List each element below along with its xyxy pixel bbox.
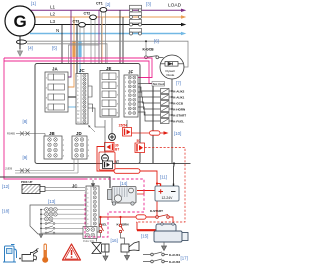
svg-text:JA: JA <box>52 67 58 72</box>
relay coil K-AUX1 <box>161 95 173 100</box>
svg-text:[16]: [16] <box>111 238 118 243</box>
svg-text:K-HORN: K-HORN <box>117 222 129 226</box>
neutral ellipse node <box>17 40 27 44</box>
svg-text:K-HORN: K-HORN <box>173 108 185 112</box>
contact K-AUX2 <box>143 259 168 263</box>
wire L3 (black phase) <box>30 24 181 26</box>
relay coil K-HORN <box>161 107 173 112</box>
red bus K-FUEL/K-HORN <box>101 216 156 218</box>
svg-text:K-AUX1: K-AUX1 <box>173 96 184 100</box>
lamp bus <box>40 210 42 235</box>
svg-text:L2: L2 <box>50 11 56 16</box>
BT wire to battery minus <box>113 163 191 165</box>
JB pins <box>48 138 65 158</box>
svg-text:4: 4 <box>125 91 126 93</box>
wire RS485 <box>7 132 45 137</box>
arrow N load end <box>181 32 186 35</box>
svg-text:K-AUX1: K-AUX1 <box>169 253 180 257</box>
connector JB <box>44 131 62 159</box>
fuse oval on 15/54 line <box>150 131 161 135</box>
arrow L1 load end <box>181 9 186 12</box>
diode return lead down <box>171 79 173 164</box>
red option box around BT <box>99 152 115 170</box>
relay coil K-AUX2 <box>161 89 173 94</box>
svg-text:[3]: [3] <box>146 1 151 6</box>
icon warning triangle <box>63 244 81 260</box>
pickup sensor <box>21 180 85 194</box>
svg-text:[9]: [9] <box>23 155 28 160</box>
horn ground <box>125 252 130 260</box>
arrow L2 load end <box>181 15 186 18</box>
wire blue sense to JA pin4 <box>68 34 80 108</box>
svg-text:[6]: [6] <box>154 38 159 43</box>
gray neutral wire 1 <box>27 41 146 56</box>
svg-text:JC: JC <box>79 68 85 73</box>
svg-text:K-START: K-START <box>150 209 163 213</box>
contact K-AUX1 <box>143 252 168 256</box>
CT1 current transformer <box>100 7 107 12</box>
svg-text:K-AUX2: K-AUX2 <box>173 90 184 94</box>
relay coil K-FUEL <box>161 119 173 124</box>
svg-text:Diode: Diode <box>167 73 175 77</box>
svg-text:K-FUEL: K-FUEL <box>173 120 184 124</box>
generator G <box>5 6 35 36</box>
ground arrow <box>18 49 23 56</box>
svg-text:L3: L3 <box>50 19 56 24</box>
wire L2 (orange phase) <box>30 16 181 18</box>
wire drop purple after CT1 to controller <box>98 10 100 63</box>
connector JF <box>124 69 138 117</box>
blue ref labels <box>2 1 188 260</box>
wire red 30BT to main red <box>97 147 118 172</box>
arrow L3 load end <box>181 23 186 26</box>
svg-text:L1: L1 <box>50 5 56 10</box>
svg-text:[10]: [10] <box>174 131 181 136</box>
wire L1 (purple phase to LOAD) <box>30 9 181 11</box>
svg-text:[2]: [2] <box>106 2 111 7</box>
svg-text:15/54: 15/54 <box>119 123 128 127</box>
terminal BT (black) <box>103 160 120 169</box>
svg-text:JD: JD <box>76 131 82 136</box>
contact K-GCB [6] <box>145 56 164 59</box>
magenta wire m2 (to Not Used) <box>4 61 152 84</box>
JD to JC arrow <box>89 126 96 133</box>
sleeve orange <box>72 41 75 57</box>
svg-text:CT3: CT3 <box>73 19 80 23</box>
red dashed wire from 50 <box>136 148 185 223</box>
svg-text:[5]: [5] <box>52 45 57 50</box>
breaker pole L3 <box>130 20 142 27</box>
flywheel diode circle <box>160 55 184 79</box>
svg-text:BT: BT <box>115 148 119 152</box>
black harness wire <box>0 177 110 188</box>
terminal 30 BT <box>105 143 120 152</box>
svg-text:K-GCB: K-GCB <box>173 102 184 106</box>
starter ground <box>162 242 167 251</box>
svg-text:12-24V: 12-24V <box>162 196 174 200</box>
CT3 secondary pair <box>80 27 84 64</box>
strip top arrow <box>91 180 94 187</box>
switch rows <box>45 221 55 234</box>
CT3 current transformer <box>79 22 86 27</box>
wire drop black2 near breaker to JF <box>122 17 124 64</box>
svg-text:[4]: [4] <box>28 45 33 50</box>
svg-text:G: G <box>14 12 27 31</box>
wire CAN J1939 pair <box>5 160 78 174</box>
breaker pole N <box>130 29 142 36</box>
wire 15/54 to fuse [10] <box>132 132 150 134</box>
svg-text:LOAD: LOAD <box>168 3 182 9</box>
svg-text:RS485: RS485 <box>7 132 15 136</box>
wire N (light blue neutral) <box>30 33 181 35</box>
icon oil can <box>19 249 38 262</box>
svg-text:CT1: CT1 <box>96 2 103 6</box>
svg-text:8: 8 <box>125 109 126 111</box>
wire black sense to JA pin3 <box>68 25 77 98</box>
starter motor <box>154 223 188 242</box>
sense-wire housing box <box>69 45 100 64</box>
CT2 secondary pair <box>91 20 95 64</box>
svg-text:JC: JC <box>72 184 77 189</box>
dashed option boundary <box>85 179 144 237</box>
terminal 15/54 <box>119 120 132 136</box>
valve ground <box>103 252 108 261</box>
JC strip pins <box>77 74 86 124</box>
CT2 current transformer <box>90 15 97 20</box>
svg-text:Not Used: Not Used <box>153 82 165 86</box>
wire to starter solenoid <box>169 217 173 224</box>
svg-text:FUEL SOL: FUEL SOL <box>83 240 95 243</box>
plus terminal circle <box>109 134 116 141</box>
icon fuel pump <box>3 245 17 263</box>
alternator B+ wire <box>137 190 157 192</box>
svg-text:[14]: [14] <box>120 181 127 186</box>
breaker pole L1 <box>130 5 142 12</box>
svg-text:6: 6 <box>125 100 126 102</box>
wire drop black near breaker to JF <box>119 10 121 63</box>
JF to relay stub wires <box>138 84 161 122</box>
breaker pole L2 <box>130 12 142 19</box>
svg-text:K-GCB: K-GCB <box>143 47 155 51</box>
wire steps right of JC <box>88 86 105 127</box>
relay coil K-GCB <box>161 101 173 106</box>
sleeve blue <box>78 41 81 57</box>
battery 12-24V <box>155 164 179 202</box>
svg-text:PICK UP: PICK UP <box>21 180 32 184</box>
battery plus lead <box>157 183 161 185</box>
svg-text:1: 1 <box>125 78 126 80</box>
horn <box>121 242 139 253</box>
connector JE <box>100 66 119 117</box>
connector JC (top strip) <box>76 68 88 124</box>
svg-text:JF: JF <box>128 69 133 74</box>
svg-text:[15]: [15] <box>141 234 148 239</box>
strip bottom block <box>83 227 97 239</box>
JF pins <box>125 76 136 115</box>
JD pins <box>75 138 90 158</box>
svg-text:[7]: [7] <box>176 80 181 85</box>
terminal 50 <box>135 117 145 153</box>
svg-text:N: N <box>56 28 59 33</box>
relay return bus left <box>152 86 154 164</box>
svg-text:[11]: [11] <box>160 175 167 180</box>
wire drop L3 black to controller <box>61 25 63 64</box>
svg-text:[1]: [1] <box>31 1 36 6</box>
relay coil K-START <box>161 113 173 118</box>
connector JD <box>72 131 87 159</box>
svg-text:[8]: [8] <box>23 119 28 124</box>
svg-text:K-START: K-START <box>173 114 186 118</box>
svg-text:J1939: J1939 <box>5 167 13 171</box>
annunciator lamp box <box>30 205 84 234</box>
fuse oval on bus <box>136 215 146 219</box>
svg-text:JB: JB <box>49 131 55 136</box>
gray neutral wire 2 <box>27 44 107 64</box>
wire red to battery junction <box>140 171 157 217</box>
lamp rows wires <box>41 210 85 234</box>
wire purple sense to JA pin1 <box>68 10 71 77</box>
icon thermometer <box>42 244 48 263</box>
fuel valve bowtie <box>92 243 109 254</box>
connector JA <box>45 67 68 112</box>
svg-text:[13]: [13] <box>48 199 55 204</box>
remote JC strip <box>72 184 99 233</box>
JE pin rows <box>102 73 116 116</box>
svg-text:K-AUX2: K-AUX2 <box>169 260 180 264</box>
magenta left vertical <box>4 58 85 179</box>
wire drop orange after CT2 to controller <box>101 17 103 64</box>
wire orange sense to JA pin2 <box>68 17 74 87</box>
thick red battery cable to starter <box>137 229 156 231</box>
controller box <box>35 64 140 164</box>
CT1 secondary pair <box>102 12 106 64</box>
svg-text:5: 5 <box>125 95 126 97</box>
magenta wire m1 (top to JF pin) <box>4 58 152 78</box>
svg-text:7: 7 <box>125 104 126 106</box>
svg-text:[17]: [17] <box>181 255 188 260</box>
svg-text:2: 2 <box>125 82 126 84</box>
minus terminal circle <box>102 155 109 162</box>
generator neutral lead <box>19 36 21 49</box>
svg-text:9: 9 <box>125 113 126 115</box>
svg-text:3: 3 <box>125 86 126 88</box>
svg-text:CT2: CT2 <box>84 12 91 16</box>
fuse oval main red <box>114 169 140 174</box>
svg-text:[12]: [12] <box>2 184 9 189</box>
lamps row1 <box>45 208 58 221</box>
Not Used box <box>152 82 165 87</box>
alternator <box>108 187 137 206</box>
lamp box ground <box>39 234 43 238</box>
svg-text:[18]: [18] <box>2 209 9 214</box>
